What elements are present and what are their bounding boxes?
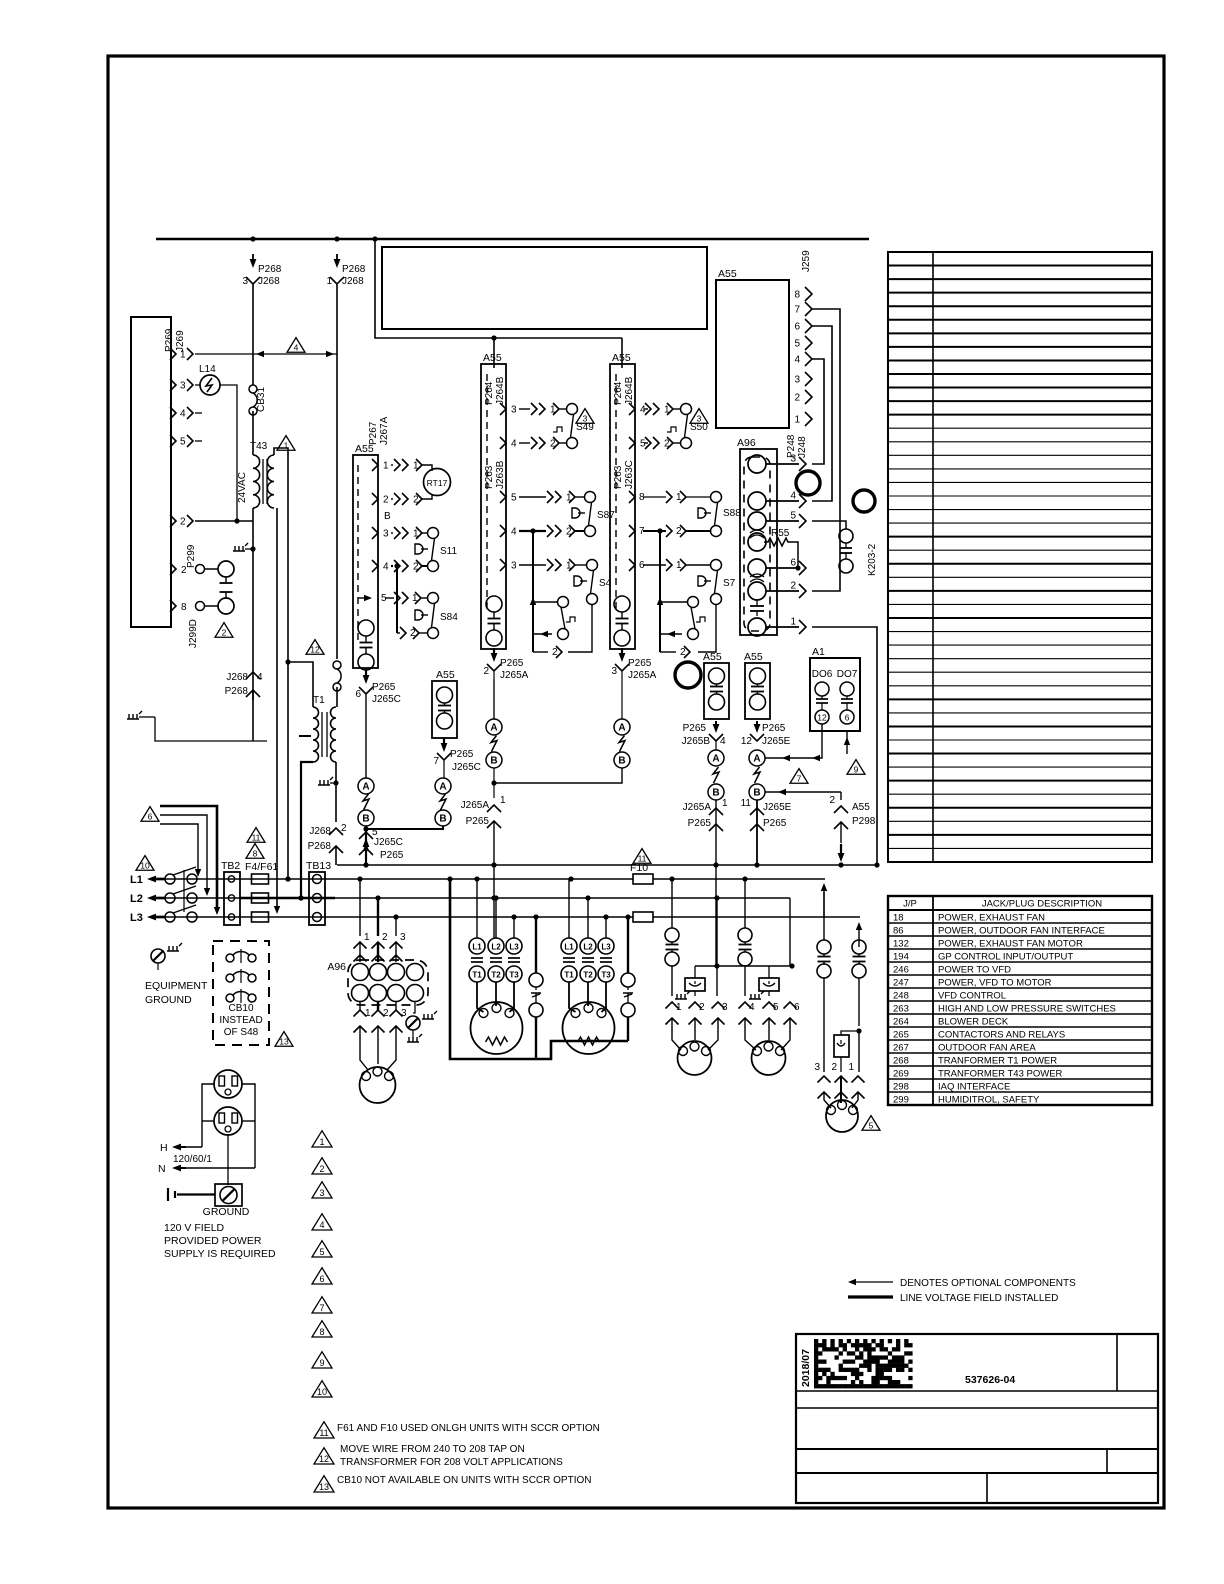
svg-text:3: 3 <box>611 666 617 677</box>
note triangle 6 <box>141 807 159 822</box>
wire J259-7 to P248-2 <box>812 309 840 591</box>
relay K203-2 <box>812 521 846 529</box>
screw ground A96 <box>413 1002 415 1014</box>
svg-text:A1: A1 <box>812 646 825 658</box>
svg-text:J265C: J265C <box>372 694 401 705</box>
transformer T1 primary winding <box>313 707 319 762</box>
svg-text:TRANSFORMER FOR 208 VOLT APPLI: TRANSFORMER FOR 208 VOLT APPLICATIONS <box>340 1457 563 1468</box>
svg-text:24VAC: 24VAC <box>237 472 248 503</box>
wire col3 B to col2 junction <box>494 768 622 783</box>
svg-text:P265: P265 <box>762 723 786 734</box>
connector J265C-5/P265 stack <box>359 832 373 839</box>
svg-text:A55: A55 <box>612 352 631 364</box>
wire phase L1 bus <box>165 878 825 880</box>
indicator lamp L14 <box>200 375 220 395</box>
svg-text:264: 264 <box>893 1017 909 1028</box>
svg-text:L2: L2 <box>130 893 143 905</box>
wire phase L3 bus <box>165 916 860 918</box>
pin A55-2 row to RT17 <box>372 493 378 505</box>
output DO6 contact <box>815 682 829 696</box>
pin A55-3 row to S11 <box>372 527 378 539</box>
breaker link A-B (col2) <box>493 679 495 719</box>
svg-text:2: 2 <box>383 1008 389 1019</box>
svg-text:11: 11 <box>638 854 647 864</box>
svg-text:246: 246 <box>893 965 909 976</box>
svg-text:298: 298 <box>893 1082 909 1093</box>
wire T43 primary bottom <box>252 508 254 700</box>
pin A55-1 row to RT17 <box>372 459 378 471</box>
circuit breaker CB10 (optional) <box>213 941 269 1045</box>
note triangle 10 <box>136 856 154 871</box>
svg-text:L1: L1 <box>472 943 482 952</box>
svg-text:P268: P268 <box>308 841 332 852</box>
optional feed arrow L1 right <box>823 889 825 918</box>
connector P268-1/J268 drop <box>336 254 338 263</box>
svg-text:9: 9 <box>319 1358 324 1368</box>
svg-text:6: 6 <box>148 812 153 822</box>
svg-text:12: 12 <box>319 1454 329 1464</box>
svg-text:10: 10 <box>317 1387 327 1397</box>
svg-text:1: 1 <box>180 350 186 361</box>
svg-text:194: 194 <box>893 952 909 963</box>
switch S7 <box>711 560 722 571</box>
svg-text:J263C: J263C <box>624 460 635 489</box>
svg-text:F4/F61: F4/F61 <box>245 861 278 873</box>
svg-text:J265A: J265A <box>683 802 712 813</box>
pins below A96 <box>359 1002 361 1011</box>
svg-text:7: 7 <box>797 774 802 784</box>
svg-text:5: 5 <box>773 1002 779 1013</box>
sheet border frame <box>108 56 1164 1508</box>
svg-text:6: 6 <box>355 689 361 700</box>
svg-text:3: 3 <box>511 405 517 416</box>
svg-text:J259: J259 <box>801 250 812 272</box>
svg-text:J265B: J265B <box>682 736 711 747</box>
wire phase L2 bus <box>165 897 790 899</box>
note triangle 5 <box>862 1116 880 1131</box>
fuse F4 L2 <box>252 893 269 903</box>
svg-text:3: 3 <box>511 561 517 572</box>
device box A55 column 3 <box>610 364 635 649</box>
svg-text:4: 4 <box>511 527 517 538</box>
svg-text:TB13: TB13 <box>306 860 331 872</box>
contactor K (blower 2) with motor B4 <box>561 938 577 954</box>
svg-text:L3: L3 <box>601 943 611 952</box>
wire J259-6 to P248-4 <box>812 326 832 501</box>
svg-text:J268: J268 <box>309 826 331 837</box>
wires to fan plug 2 <box>745 1018 756 1050</box>
wire drops contactor 2 <box>568 879 570 938</box>
svg-text:2: 2 <box>794 393 800 404</box>
svg-text:2018/07: 2018/07 <box>800 1349 812 1387</box>
device box A55 relay left <box>704 663 729 719</box>
svg-text:A96: A96 <box>327 961 346 973</box>
svg-text:2: 2 <box>341 823 347 834</box>
connector J265E-11/P265 stack <box>750 808 764 815</box>
connector J268-4/P268 chevrons <box>246 672 260 679</box>
connector pins fan 1 <box>666 1002 679 1009</box>
svg-text:J263B: J263B <box>495 460 506 489</box>
note triangle column 1-10 <box>312 1131 332 1147</box>
connector P265-2/J265A <box>493 648 495 657</box>
device box A1 <box>810 658 860 731</box>
motor M (exhaust fan) <box>360 1067 396 1103</box>
relay coil A55-R <box>750 668 766 684</box>
equipment ground screw <box>151 949 165 963</box>
wire drops contactor 1 <box>476 879 478 938</box>
device box A55 relay right <box>745 663 770 719</box>
node feeder junction x494 <box>491 335 496 340</box>
svg-text:J/P: J/P <box>903 899 917 910</box>
wire L14 to node <box>220 385 237 521</box>
svg-text:2: 2 <box>319 1164 324 1174</box>
unit control box (empty rectangle) <box>382 247 707 329</box>
pin P269-3 <box>170 379 176 391</box>
svg-text:J265A: J265A <box>500 670 529 681</box>
svg-text:269: 269 <box>893 1069 909 1080</box>
connector J265A-1/P265 stack <box>487 805 501 812</box>
node bus junction x253 <box>250 236 255 241</box>
transformer T1 tap 208 <box>299 735 311 737</box>
transformer T43 primary winding <box>253 455 260 508</box>
svg-text:7: 7 <box>319 1303 324 1313</box>
svg-text:J267A: J267A <box>379 416 390 445</box>
svg-text:268: 268 <box>893 1056 909 1067</box>
svg-text:J299D: J299D <box>188 619 199 648</box>
svg-text:5: 5 <box>869 1121 874 1131</box>
svg-text:J264B: J264B <box>495 376 506 405</box>
svg-text:OF S48: OF S48 <box>224 1027 259 1038</box>
svg-text:1: 1 <box>790 617 796 628</box>
svg-text:L14: L14 <box>199 364 216 375</box>
svg-text:R55: R55 <box>771 528 790 539</box>
wire bus drop to A55 feeder <box>375 239 622 338</box>
svg-text:4: 4 <box>319 1220 324 1230</box>
svg-text:HIGH AND LOW PRESSURE SWITCHES: HIGH AND LOW PRESSURE SWITCHES <box>938 1004 1116 1015</box>
crankcase heater HR2 <box>768 966 770 978</box>
fuse F4 L1 <box>252 874 269 884</box>
svg-text:B: B <box>362 814 369 825</box>
svg-text:132: 132 <box>893 939 909 950</box>
receptacle outlet 1 <box>214 1070 242 1098</box>
svg-text:J264B: J264B <box>624 376 635 405</box>
note triangle 3 (S49) <box>576 409 594 424</box>
wires to supply motor <box>360 1026 368 1070</box>
break marks A96 <box>750 530 764 538</box>
wire L2 line to pin3 <box>716 898 718 996</box>
note triangle 1 <box>277 436 295 451</box>
svg-text:P299: P299 <box>186 544 197 568</box>
pin col3-5 row to S50 <box>629 437 635 449</box>
svg-text:1: 1 <box>326 276 332 287</box>
wire DO7 feedback <box>846 731 848 754</box>
wire L1 to A96-1 <box>359 879 361 936</box>
dashed key line A55-1 <box>357 465 359 640</box>
dimension arrow span (transformer feed) <box>253 353 337 355</box>
pressure switch S (blower 2) <box>627 917 629 973</box>
pin col2-3 row to S49 <box>500 403 506 415</box>
svg-text:1: 1 <box>848 1062 854 1073</box>
svg-text:S87: S87 <box>597 510 615 521</box>
pin A55-4 row <box>372 560 378 572</box>
wire B-K1 to J265C bus <box>366 826 443 829</box>
output DO7 contact <box>840 682 854 696</box>
wire J259-4 to P248-3 <box>812 359 824 464</box>
svg-text:P268: P268 <box>342 264 366 275</box>
svg-text:P298: P298 <box>852 816 876 827</box>
svg-text:POWER, VFD TO MOTOR: POWER, VFD TO MOTOR <box>938 978 1052 989</box>
wire top supply bus <box>156 238 869 240</box>
svg-text:T3: T3 <box>509 971 519 980</box>
barcode datamatrix <box>814 1339 913 1388</box>
svg-text:1: 1 <box>383 461 389 472</box>
svg-text:A: A <box>439 782 446 793</box>
wire L3 to A96-3 <box>395 917 397 936</box>
round plug (fan 1) <box>678 1041 712 1075</box>
svg-text:2: 2 <box>831 1062 837 1073</box>
pressure switch S (blower 1) <box>535 917 537 973</box>
svg-text:B: B <box>490 756 497 767</box>
switch S50 <box>681 404 692 415</box>
pin col2 latch output <box>533 651 548 653</box>
svg-text:S7: S7 <box>723 578 736 589</box>
device box A55 relay K <box>432 681 457 738</box>
svg-text:P267: P267 <box>368 421 379 445</box>
terminal ring (A55 left) <box>675 662 701 688</box>
wire heater bus <box>695 965 792 967</box>
node J265A stack to wire bus <box>491 862 496 867</box>
wire P248-1 to right bus <box>812 627 877 865</box>
svg-text:P263: P263 <box>613 465 624 489</box>
svg-text:J268: J268 <box>226 672 248 683</box>
svg-text:7: 7 <box>433 756 439 767</box>
svg-text:2: 2 <box>699 1002 705 1013</box>
field supply wire L1 <box>160 824 198 871</box>
svg-text:GROUND: GROUND <box>203 1206 250 1218</box>
breaker link A-B (fan right) <box>749 750 765 766</box>
pin P269-1 <box>170 348 176 360</box>
contactor K (blower 1) with motor B3 <box>469 938 485 954</box>
svg-text:4: 4 <box>511 439 517 450</box>
latch switch col2 <box>530 597 536 605</box>
svg-text:CB10 NOT AVAILABLE ON UNITS WI: CB10 NOT AVAILABLE ON UNITS WITH SCCR OP… <box>337 1475 592 1486</box>
svg-text:T1: T1 <box>472 971 482 980</box>
relay coil in A55 col3 <box>614 596 630 612</box>
svg-text:J265A: J265A <box>461 800 490 811</box>
svg-text:P269: P269 <box>164 328 175 352</box>
svg-text:299: 299 <box>893 1095 909 1106</box>
node T43 secondary L1 tap <box>285 876 290 881</box>
connector shell A96 <box>740 449 777 635</box>
pin col2-3b row to S4 <box>500 559 506 571</box>
wire fan stacks to bus <box>715 800 717 966</box>
relay coil in A55 col2 <box>486 596 502 612</box>
svg-text:P265: P265 <box>683 723 707 734</box>
svg-text:T1: T1 <box>313 695 325 706</box>
connector P265-7/J265C <box>443 738 445 747</box>
svg-text:537626-04: 537626-04 <box>965 1374 1015 1386</box>
svg-text:L1: L1 <box>130 874 143 886</box>
connector A96 sockets <box>748 455 766 473</box>
svg-text:3: 3 <box>319 1188 324 1198</box>
note triangle 2 <box>215 623 233 638</box>
breaker link A-B (T1 circuit) <box>358 778 374 794</box>
svg-text:3: 3 <box>794 375 800 386</box>
wire to T1 primary <box>288 662 313 707</box>
note 13 CB10 <box>314 1476 334 1492</box>
svg-text:TRANFORMER T43 POWER: TRANFORMER T43 POWER <box>938 1069 1063 1080</box>
svg-text:3: 3 <box>180 381 186 392</box>
svg-text:1: 1 <box>500 795 506 806</box>
node L1 taps <box>285 876 290 881</box>
relay coil A55-K1 <box>437 687 453 703</box>
svg-text:L2: L2 <box>491 943 501 952</box>
wire col2 latch feed <box>532 531 534 652</box>
connector P265-6/J265C <box>365 668 367 679</box>
svg-text:18: 18 <box>893 913 904 924</box>
jack/plug description table <box>888 896 1152 1105</box>
field supply wire L3 <box>160 806 217 908</box>
svg-text:12: 12 <box>310 645 320 655</box>
svg-text:2: 2 <box>483 666 489 677</box>
connector P248 pins <box>766 463 799 465</box>
svg-text:4: 4 <box>790 491 796 502</box>
terminal ring (P248 upper) <box>796 471 820 495</box>
svg-text:B: B <box>384 511 391 522</box>
connector J268-2/P268 chevrons <box>329 828 343 835</box>
svg-text:B: B <box>439 814 446 825</box>
disconnect switch S48 L1 <box>165 874 175 884</box>
svg-text:1: 1 <box>364 932 370 943</box>
wire L2 drop right <box>789 898 791 966</box>
svg-text:HUMIDITROL, SAFETY: HUMIDITROL, SAFETY <box>938 1095 1040 1106</box>
pin col2-5 row to S87 <box>500 491 506 503</box>
node col3 row junction <box>657 528 662 533</box>
device box A55 column 2 <box>481 364 506 649</box>
note triangle 12 <box>306 640 324 655</box>
svg-text:PROVIDED POWER: PROVIDED POWER <box>164 1235 262 1247</box>
wire S4 to latch output <box>568 605 592 653</box>
pin col3-4 row to S50 <box>629 403 635 415</box>
svg-text:5: 5 <box>180 437 186 448</box>
svg-text:RT17: RT17 <box>427 478 448 488</box>
crankcase heater HR1 <box>694 966 696 978</box>
transformer T1 core <box>321 712 323 757</box>
wire col3 latch feed <box>659 531 661 652</box>
svg-text:1: 1 <box>794 415 800 426</box>
pin A55 row 2 to S84 <box>397 632 400 634</box>
note triangle 4 <box>287 338 305 353</box>
wire T43 secondary top to feeder <box>274 448 288 879</box>
breaker link A-B (K1) <box>435 778 451 794</box>
switch S11 <box>428 528 439 539</box>
node T43/T1 junction <box>285 659 290 664</box>
connector P298-2/A55 stack <box>840 792 842 800</box>
svg-text:J268: J268 <box>258 276 280 287</box>
svg-text:6: 6 <box>794 322 800 333</box>
svg-text:P265: P265 <box>763 818 787 829</box>
svg-text:S84: S84 <box>440 612 458 623</box>
legend optional components arrow <box>848 1279 856 1285</box>
wire fan B control <box>765 791 841 793</box>
note triangle 7 <box>790 769 808 784</box>
svg-text:P265: P265 <box>450 749 474 760</box>
pin col3 latch output <box>660 651 676 653</box>
wire A55-4 to row 2 <box>396 566 398 633</box>
svg-text:JACK/PLUG DESCRIPTION: JACK/PLUG DESCRIPTION <box>982 899 1102 910</box>
svg-text:B: B <box>753 788 760 799</box>
svg-text:P265: P265 <box>380 850 404 861</box>
node A55-4 junction <box>394 563 399 568</box>
svg-text:6: 6 <box>794 1002 800 1013</box>
svg-text:3: 3 <box>790 454 796 465</box>
svg-text:POWER, OUTDOOR FAN INTERFACE: POWER, OUTDOOR FAN INTERFACE <box>938 926 1105 937</box>
line voltage field wiring loop <box>450 879 628 1059</box>
svg-text:4: 4 <box>383 562 389 573</box>
svg-text:MOVE WIRE FROM 240 TO 208 TAP: MOVE WIRE FROM 240 TO 208 TAP ON <box>340 1444 525 1455</box>
note 11 F61 and F10 <box>314 1422 334 1438</box>
fuse F4 L3 <box>252 912 269 922</box>
connector P265/J265E-12 <box>756 721 758 728</box>
svg-text:8: 8 <box>319 1327 324 1337</box>
breaker link A-B (fan left) <box>708 750 724 766</box>
relay contact pair P299 <box>218 561 234 577</box>
pin P299-2 <box>170 563 176 575</box>
svg-text:3: 3 <box>383 529 389 540</box>
svg-text:265: 265 <box>893 1030 909 1041</box>
wire L1 arrow to relay 3 <box>823 889 825 940</box>
svg-text:1: 1 <box>722 798 728 809</box>
field supply wire L2 <box>160 815 207 890</box>
svg-text:IAQ INTERFACE: IAQ INTERFACE <box>938 1082 1010 1093</box>
relay contact (right 1) <box>817 940 831 954</box>
svg-text:DO7: DO7 <box>837 669 858 680</box>
svg-text:GROUND: GROUND <box>145 994 192 1006</box>
terminal ring (P248 lower) <box>853 490 875 512</box>
svg-text:J265A: J265A <box>628 670 657 681</box>
wire relay outputs <box>671 966 673 996</box>
svg-text:P263: P263 <box>484 465 495 489</box>
svg-text:A: A <box>362 782 369 793</box>
wiring diagram index table (blank) <box>888 252 1152 862</box>
svg-text:3: 3 <box>242 276 248 287</box>
pin P299-8 <box>170 600 176 612</box>
svg-text:267: 267 <box>893 1043 909 1054</box>
svg-text:8: 8 <box>253 849 258 859</box>
svg-text:10: 10 <box>140 861 150 871</box>
svg-text:5: 5 <box>794 339 800 350</box>
relay coil in A55-1 <box>358 620 374 636</box>
ground electrode <box>167 1188 169 1201</box>
note triangle 3 (S50) <box>690 409 708 424</box>
svg-text:12: 12 <box>817 713 827 723</box>
svg-text:5: 5 <box>511 493 517 504</box>
svg-text:2: 2 <box>222 628 227 638</box>
pin P269-5 <box>170 435 176 447</box>
svg-text:3: 3 <box>400 932 406 943</box>
note 12 move wire <box>314 1448 334 1464</box>
connector J265A-1/P265 stack (fan) <box>709 808 723 815</box>
wire L2 to A96-2 <box>377 898 379 936</box>
svg-text:L3: L3 <box>509 943 519 952</box>
disconnect switch S48 L3 <box>165 912 175 922</box>
svg-text:SUPPLY IS REQUIRED: SUPPLY IS REQUIRED <box>164 1248 276 1260</box>
svg-text:3: 3 <box>583 414 588 424</box>
svg-text:12: 12 <box>741 736 753 747</box>
svg-text:7: 7 <box>794 305 800 316</box>
switch link bar <box>183 870 185 912</box>
connector pins into A96 <box>354 942 367 949</box>
